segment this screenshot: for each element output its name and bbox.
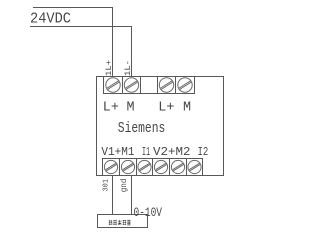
svg-text:V2+M2: V2+M2 bbox=[153, 145, 191, 159]
svg-text:L+: L+ bbox=[158, 101, 174, 116]
svg-text:M: M bbox=[127, 101, 135, 116]
svg-text:301: 301 bbox=[102, 179, 110, 192]
svg-text:gnd: gnd bbox=[120, 178, 129, 192]
svg-text:M: M bbox=[183, 101, 191, 116]
svg-text:1L+: 1L+ bbox=[105, 60, 114, 76]
svg-text:V1+M1: V1+M1 bbox=[101, 145, 134, 159]
svg-text:0-10V: 0-10V bbox=[134, 206, 163, 220]
svg-text:I1: I1 bbox=[142, 145, 150, 159]
svg-text:24VDC: 24VDC bbox=[30, 11, 71, 28]
svg-text:I2: I2 bbox=[198, 145, 209, 159]
svg-text:L+: L+ bbox=[103, 101, 119, 116]
svg-text:1L-: 1L- bbox=[124, 60, 133, 76]
svg-text:Siemens: Siemens bbox=[118, 121, 166, 137]
